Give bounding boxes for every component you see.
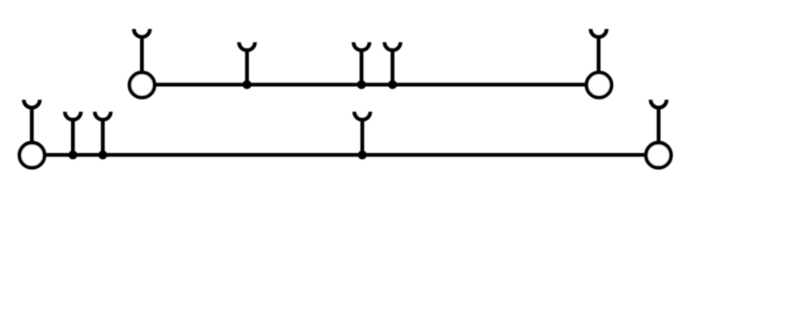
junction dot row2 x362	[358, 150, 367, 159]
plug fork row1 junction x392	[385, 42, 401, 84]
junction dot row1 x361	[357, 80, 366, 89]
plug fork row1 junction x247	[239, 42, 255, 84]
terminal circle row1 right	[587, 73, 612, 98]
plug fork row2 junction x103	[95, 112, 111, 155]
junction dot row2 x103	[98, 150, 107, 159]
wire bus row 2	[32, 153, 659, 157]
wire bus row 1	[142, 83, 599, 87]
plug fork row2 junction x362	[354, 112, 370, 155]
plug fork row2 junction x73	[65, 112, 81, 155]
plug fork above row1 right terminal	[591, 29, 607, 78]
plug fork row1 junction x361	[354, 42, 370, 84]
junction dot row2 x73	[68, 150, 77, 159]
plug fork above row2 left terminal	[24, 100, 40, 148]
terminal circle row1 left	[130, 73, 155, 98]
terminal circle row2 left	[20, 143, 45, 168]
terminal circle row2 right	[646, 143, 671, 168]
plug fork above row1 left terminal	[134, 29, 150, 78]
plug fork above row2 right terminal	[651, 100, 667, 148]
junction dot row1 x392	[388, 80, 397, 89]
junction dot row1 x247	[243, 80, 252, 89]
